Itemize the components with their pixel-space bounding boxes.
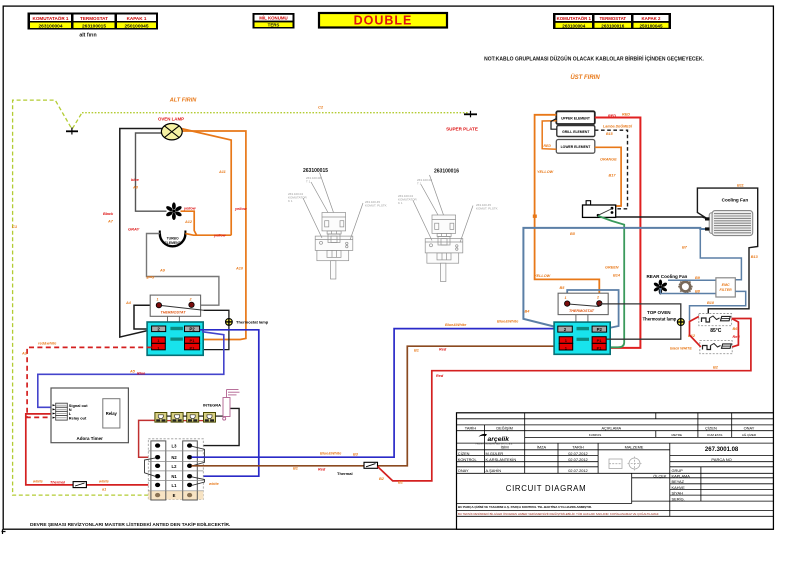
svg-text:2: 2 [596, 296, 599, 300]
svg-text:yellow: yellow [234, 207, 248, 211]
svg-text:ALT FIRIN: ALT FIRIN [169, 98, 198, 104]
svg-text:02.07.2012: 02.07.2012 [568, 468, 587, 473]
svg-text:BU PARÇA ÇİZİMİ VE TASARIMI A.: BU PARÇA ÇİZİMİ VE TASARIMI A.Ş. PARÇA K… [458, 504, 592, 509]
svg-text:GRUP: GRUP [672, 468, 684, 473]
switch assembly drawing 263100015 [288, 168, 387, 279]
commutator K2 (right cyan box) [554, 322, 610, 354]
oven lamp L [158, 117, 184, 140]
svg-text:arçelik: arçelik [488, 436, 511, 443]
title box DOUBLE [319, 13, 447, 28]
svg-text:SİYAH: SİYAH [672, 491, 684, 496]
wire steelblue thermostat1 loop to P2 [567, 290, 618, 328]
earth wire C2 dotted [82, 112, 468, 114]
svg-text:DEVRE ŞEMASI REVİZYONLARI MAST: DEVRE ŞEMASI REVİZYONLARI MASTER LİSTEDE… [30, 521, 230, 528]
svg-text:T 1: T 1 [417, 182, 422, 186]
thermal fuse F2 [364, 462, 378, 468]
svg-text:ÜST FIRIN: ÜST FIRIN [570, 74, 600, 81]
terminal block TB1 [148, 439, 203, 500]
svg-text:a1: a1 [102, 488, 106, 492]
svg-text:OVEN LAMP: OVEN LAMP [158, 117, 184, 122]
svg-text:B1: B1 [293, 466, 298, 470]
table MIL KONUMU/TERS [253, 13, 295, 29]
wire orange lower element left [542, 121, 556, 150]
svg-text:GREEN: GREEN [605, 266, 619, 270]
svg-text:gray: gray [146, 275, 156, 279]
timer U1 (Adora Timer) [51, 388, 128, 443]
ground anchor right [464, 111, 477, 118]
svg-text:KOMUTATAÖR 1: KOMUTATAÖR 1 [33, 15, 69, 21]
svg-text:TERMOSTAT: TERMOSTAT [599, 16, 626, 21]
svg-text:Thermal: Thermal [50, 481, 66, 485]
svg-text:Blue&White: Blue&White [497, 319, 518, 323]
wire steelblue EMC to 85C [690, 291, 746, 320]
svg-text:MALZEME: MALZEME [625, 444, 644, 449]
svg-text:B11: B11 [737, 184, 744, 188]
svg-text:267.3001.08: 267.3001.08 [705, 447, 739, 453]
arcelik logo [475, 434, 513, 445]
svg-text:Blue: Blue [137, 372, 145, 376]
wire A4 black: thermostat 1 to commutator 2 [134, 305, 159, 329]
wire A9 grey: turbo to thermostat 2 [147, 234, 219, 306]
svg-text:SERİG.: SERİG. [672, 496, 685, 501]
wire B3 blue N2 to right [192, 329, 559, 458]
svg-text:AĞ.ÇİZER: AĞ.ÇİZER [742, 432, 757, 437]
wire black cooling fan loop [697, 188, 757, 313]
svg-text:263100015: 263100015 [303, 168, 328, 174]
svg-text:YELLOW: YELLOW [534, 274, 551, 278]
svg-text:BEYAZ: BEYAZ [672, 479, 685, 484]
svg-text:Blue&White: Blue&White [445, 323, 466, 327]
table KOMUTATAOR1/TERMOSTAT/KAPAK1 [28, 13, 159, 30]
svg-text:red&white: red&white [38, 342, 56, 346]
wire black grill element left [551, 119, 557, 130]
svg-text:TARİH: TARİH [465, 425, 477, 430]
svg-text:NOT:KABLO GRUPLAMASI DÜZGÜN OL: NOT:KABLO GRUPLAMASI DÜZGÜN OLACAK KABLO… [484, 55, 704, 62]
svg-text:ÇİZEN: ÇİZEN [705, 425, 717, 430]
svg-text:Relay out: Relay out [69, 415, 87, 420]
svg-text:Thermostat lamp: Thermostat lamp [643, 316, 677, 321]
wire B8 steelblue rear fan to EMC [660, 288, 716, 294]
svg-text:ORANGE: ORANGE [600, 157, 617, 161]
svg-text:PEŞREV ÜRÜNLERİ SAN. VE TİC. A: PEŞREV ÜRÜNLERİ SAN. VE TİC. A.Ş. [475, 442, 513, 445]
fan motor M1 [165, 202, 182, 220]
svg-text:Signal out: Signal out [69, 403, 89, 408]
projection symbol [609, 457, 642, 471]
wire A7 black: lamp to commutator pin 2 [120, 129, 163, 338]
svg-text:2: 2 [189, 297, 192, 301]
wire black integra to L3 [192, 408, 240, 445]
svg-text:02.07.2012: 02.07.2012 [568, 451, 587, 456]
svg-text:KOMUT. PLSTK: KOMUT. PLSTK [476, 207, 498, 211]
svg-text:RED: RED [608, 114, 616, 118]
svg-text:Red: Red [439, 348, 447, 352]
svg-text:P1: P1 [597, 346, 603, 351]
svg-text:E: E [173, 493, 176, 498]
upper element R2 [556, 111, 595, 124]
thermostat pins to commutator [167, 316, 169, 322]
svg-text:85°C: 85°C [710, 328, 722, 334]
svg-text:İMZA: İMZA [537, 444, 547, 449]
svg-text:Cooling Fan: Cooling Fan [722, 198, 749, 203]
svg-text:UPPER ELEMENT: UPPER ELEMENT [561, 117, 591, 121]
commutator K1 (left cyan box) [147, 322, 203, 355]
svg-text:ELEMENT: ELEMENT [164, 241, 181, 245]
svg-text:263100004: 263100004 [38, 24, 62, 30]
svg-text:C2: C2 [318, 105, 324, 110]
wire A8 grey: lamp to fan [136, 133, 167, 211]
svg-text:THERMOSTAT: THERMOSTAT [569, 309, 595, 313]
wire black dashed grill to lamp switch [595, 130, 628, 209]
svg-text:yellow: yellow [213, 234, 227, 238]
svg-text:PARÇA NO: PARÇA NO [711, 457, 731, 462]
wire A10 orange outer: lamp to P1 [181, 131, 246, 340]
svg-text:B17: B17 [609, 174, 617, 178]
svg-text:FILTER: FILTER [719, 288, 732, 292]
wire black lamp switch to cooling fan [616, 217, 708, 219]
svg-text:DEĞİŞİM: DEĞİŞİM [496, 425, 512, 430]
svg-text:KAPAK 1: KAPAK 1 [127, 16, 147, 21]
svg-text:A7: A7 [107, 220, 114, 224]
svg-text:INTEGRA: INTEGRA [203, 402, 221, 407]
svg-text:CIRCUIT DIAGRAM: CIRCUIT DIAGRAM [506, 484, 587, 493]
svg-text:white: white [209, 482, 219, 486]
svg-text:LOWER ELEMENT: LOWER ELEMENT [561, 145, 592, 149]
wire A11 orange: lamp to junction [181, 129, 231, 236]
svg-text:Adora Timer: Adora Timer [76, 436, 103, 441]
svg-text:AÇIKLAMA: AÇIKLAMA [601, 425, 621, 430]
svg-text:1: 1 [565, 296, 567, 300]
svg-text:A4: A4 [125, 301, 132, 305]
svg-text:ÇİZEN: ÇİZEN [458, 451, 470, 456]
svg-text:BU TEKNİK RESİMDEKİ BİLGİLER Ö: BU TEKNİK RESİMDEKİ BİLGİLER ÖNCEDEN HAB… [458, 511, 659, 516]
svg-text:YELLOW: YELLOW [537, 170, 554, 174]
svg-text:Relay: Relay [106, 411, 118, 416]
svg-text:KUMPAS: KUMPAS [589, 433, 601, 437]
svg-text:white: white [33, 480, 43, 484]
svg-text:A.ŞAHİN: A.ŞAHİN [486, 468, 502, 473]
lower element R4 [556, 140, 595, 154]
wire yellow upper element to thermostat2 [535, 115, 600, 300]
svg-text:KAPAK 2: KAPAK 2 [642, 16, 662, 21]
svg-text:A2: A2 [21, 352, 28, 356]
thermostat T1 [150, 295, 203, 316]
wire B9 steelblue rear fan to EMC [668, 279, 716, 281]
turbo element R1 [160, 231, 186, 247]
svg-text:SUPER PLATE: SUPER PLATE [446, 127, 478, 132]
wire grey+black TOP OVEN loop: thermostat2 - lamp - P1 [599, 304, 681, 339]
svg-text:A11: A11 [218, 170, 226, 174]
wire A2 red dashed: commutator to relay out [27, 347, 152, 417]
svg-text:ÖLÇEK: ÖLÇEK [653, 473, 667, 478]
svg-text:263100004: 263100004 [562, 23, 585, 28]
svg-text:alt fırın: alt fırın [79, 33, 96, 39]
svg-text:Red: Red [318, 467, 326, 471]
svg-text:263100016: 263100016 [601, 23, 624, 28]
svg-text:A10: A10 [235, 267, 244, 271]
svg-text:263100016: 263100016 [434, 169, 459, 175]
svg-text:1: 1 [157, 298, 159, 302]
svg-text:KAHVE: KAHVE [672, 485, 686, 490]
svg-text:KAPLAMA: KAPLAMA [672, 473, 691, 478]
svg-text:KOMUTATAÖR 1: KOMUTATAÖR 1 [557, 16, 592, 21]
wire RED upper element to 85C [595, 118, 641, 348]
svg-text:TARİH: TARİH [572, 444, 584, 449]
svg-text:L3: L3 [172, 443, 178, 448]
thermal fuse F1 [73, 482, 86, 488]
svg-text:250100045: 250100045 [640, 23, 663, 28]
wire green lamp switch to P1 [598, 216, 624, 347]
jumpers terminal block [145, 446, 205, 485]
svg-text:Thermal: Thermal [337, 471, 353, 476]
svg-text:black WHITE: black WHITE [670, 347, 692, 351]
thermostat T2 (top oven) [558, 293, 608, 314]
wire red 85C left bracket [690, 317, 701, 347]
earth wire C1 dashed loop [13, 100, 155, 495]
wires black between integra boxes [167, 415, 223, 417]
svg-text:C1: C1 [12, 224, 18, 229]
wire A12 orange: fan to junction [181, 211, 232, 235]
svg-text:GRILL ELEMENT: GRILL ELEMENT [562, 130, 590, 134]
table KOMUTATAOR1/TERMOSTAT/KAPAK2 [553, 13, 671, 29]
svg-text:L1: L1 [172, 483, 178, 488]
wire black lever to lamp to P1 [200, 310, 229, 349]
svg-text:ONAY: ONAY [744, 425, 755, 430]
integra connectors J1-J4 [155, 413, 216, 423]
svg-text:250100045: 250100045 [124, 24, 148, 30]
svg-text:B14: B14 [613, 273, 621, 277]
oven lamp switch S1 [583, 201, 616, 218]
svg-text:K 1: K 1 [398, 201, 403, 205]
svg-text:REAR Cooling Fan: REAR Cooling Fan [646, 274, 687, 279]
svg-text:P2: P2 [597, 327, 603, 332]
svg-text:B15: B15 [606, 132, 614, 136]
svg-text:K.ARSLANTEKİN: K.ARSLANTEKİN [486, 457, 517, 462]
svg-text:blue: blue [131, 178, 139, 182]
svg-text:Lamba DüĞMESİ: Lamba DüĞMESİ [603, 123, 633, 128]
svg-text:RED: RED [544, 144, 552, 148]
svg-text:B10: B10 [707, 301, 715, 305]
svg-text:white: white [99, 480, 109, 484]
svg-text:Red: Red [436, 374, 444, 378]
svg-text:ONAY: ONAY [458, 468, 469, 473]
grill element R3 [557, 126, 595, 137]
svg-text:METRE: METRE [672, 433, 683, 437]
wire A5 blue: P2 to timer [38, 332, 224, 408]
svg-text:A9: A9 [159, 269, 166, 273]
thermal cutout 85C upper [699, 314, 732, 326]
wire red between integra connectors [167, 420, 204, 422]
svg-text:yellow: yellow [183, 207, 197, 211]
svg-text:Thermostat lamp: Thermostat lamp [236, 319, 269, 324]
svg-text:KONTROL: KONTROL [458, 457, 478, 462]
svg-text:EMC: EMC [722, 283, 730, 287]
svg-text:T 1: T 1 [306, 180, 311, 184]
svg-text:A8: A8 [132, 186, 139, 190]
svg-text:B13: B13 [751, 255, 759, 259]
wire red integra to N2 [139, 420, 158, 457]
svg-text:MİL KONUMU: MİL KONUMU [259, 16, 287, 21]
svg-text:KOMUT. PLSTK: KOMUT. PLSTK [365, 204, 387, 208]
switch assembly drawing 263100016 [398, 169, 498, 282]
svg-text:M.GÜLER: M.GÜLER [486, 451, 504, 456]
wire turbo right to junction [185, 234, 196, 236]
wire B2 red thermal to 85C loop [378, 319, 751, 481]
integra antenna connector J5 [223, 390, 240, 421]
svg-text:Blue&White: Blue&White [320, 452, 341, 456]
thermostat lamp left [226, 319, 269, 326]
wire red 85C right jumper [732, 319, 739, 347]
wire steelblue fan to EMC right [700, 229, 741, 280]
ground anchor left [66, 128, 78, 135]
svg-text:RED: RED [622, 113, 630, 117]
svg-text:KUM.ETAS: KUM.ETAS [707, 433, 722, 437]
wire blue P2 to N1 [192, 330, 259, 476]
rear cooling fan M3 [646, 274, 692, 295]
svg-text:DOUBLE: DOUBLE [354, 14, 413, 28]
svg-text:TOP OVEN: TOP OVEN [647, 310, 671, 315]
svg-text:TERS: TERS [268, 23, 280, 28]
svg-text:P2: P2 [189, 327, 195, 332]
svg-text:P1: P1 [190, 345, 196, 350]
svg-text:A5: A5 [129, 370, 136, 374]
wire A1 red: timer L to thermal to L1 [26, 414, 158, 485]
EMC filter U2 [716, 278, 735, 297]
wire B4 steelblue thick: commutator2 up and to cooling fan [523, 228, 705, 327]
svg-text:Black: Black [103, 212, 114, 216]
svg-text:K 1: K 1 [288, 199, 293, 203]
svg-text:L2: L2 [172, 464, 178, 469]
svg-text:N1: N1 [171, 474, 177, 479]
svg-text:N2: N2 [171, 455, 177, 460]
wire orange lower element to lamp switch [595, 147, 621, 206]
svg-text:263100015: 263100015 [82, 24, 106, 30]
svg-text:THERMOSTAT: THERMOSTAT [160, 310, 186, 314]
svg-text:A12: A12 [184, 220, 193, 224]
svg-text:02.07.2012: 02.07.2012 [568, 457, 587, 462]
thermostat lamp right [677, 319, 684, 326]
svg-text:TERMOSTAT: TERMOSTAT [80, 16, 108, 21]
thermal cutout 85C lower [700, 341, 732, 354]
svg-text:P1: P1 [597, 338, 603, 343]
cooling fan M2 [705, 198, 753, 236]
wire B1 brown L2 to right commutator [192, 465, 365, 467]
svg-text:GRAY: GRAY [128, 227, 140, 232]
svg-text:P1: P1 [190, 338, 196, 343]
title block [457, 413, 774, 529]
frame corner tick [2, 529, 6, 534]
svg-text:B1: B1 [414, 349, 419, 353]
